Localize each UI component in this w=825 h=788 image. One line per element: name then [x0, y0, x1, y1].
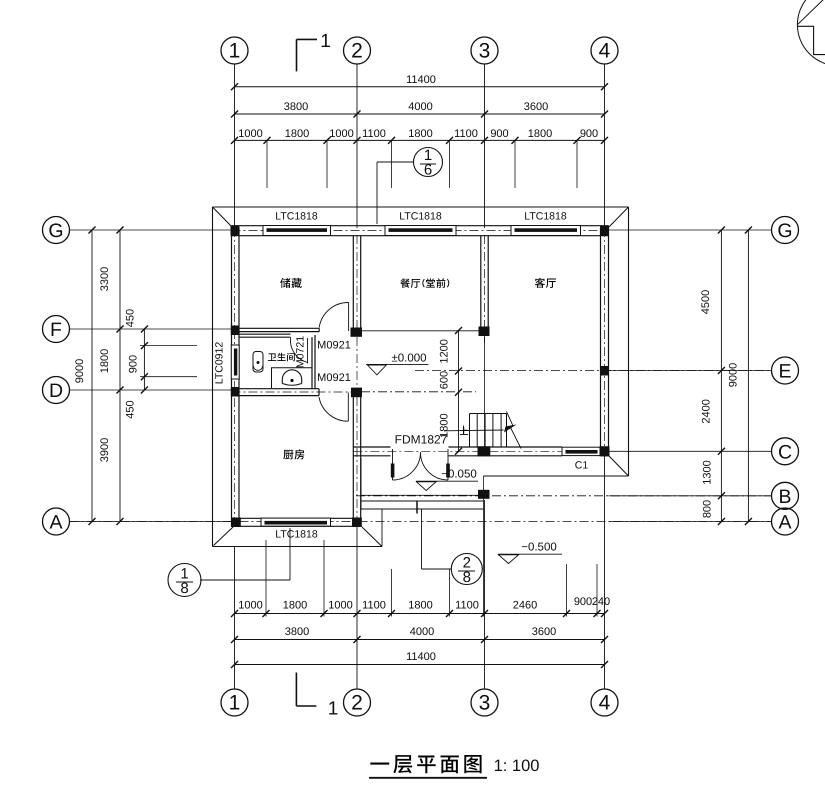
svg-text:1800: 1800 [528, 128, 552, 140]
grid line B dashdot [356, 495, 772, 497]
grid circle 1 top [221, 37, 248, 64]
beam line F dining-hall [361, 330, 481, 332]
grid line E right [609, 370, 772, 372]
svg-text:D: D [49, 380, 63, 402]
door M0721 bathroom [307, 338, 309, 364]
grid line 2 vertical bottom [356, 527, 358, 690]
door FDM1827 left leaf [391, 464, 395, 478]
window C1 [562, 447, 601, 455]
svg-text:1000: 1000 [329, 128, 353, 140]
grid circle C right [772, 438, 799, 465]
grid line A right [609, 521, 772, 523]
svg-text:450: 450 [125, 309, 137, 327]
wall bathroom east [311, 337, 313, 388]
dim line bays bottom [235, 639, 605, 641]
svg-text:3300: 3300 [99, 267, 111, 291]
grid circle A right [772, 508, 799, 535]
column col1-F [231, 326, 240, 336]
svg-text:3600: 3600 [524, 101, 548, 113]
svg-text:2460: 2460 [513, 600, 537, 612]
dim extension lines left [140, 345, 197, 347]
grid line C right [609, 450, 772, 452]
column col1-G [231, 226, 240, 236]
svg-text:A: A [778, 512, 791, 534]
wall C hall-living south [353, 446, 390, 448]
svg-text:4: 4 [599, 692, 611, 715]
elevation -0.500 [498, 553, 562, 555]
svg-text:M0921: M0921 [317, 340, 351, 352]
column col2-D [351, 388, 362, 398]
grid circle 3 bottom [471, 689, 498, 716]
elevation -0.050 [416, 480, 478, 482]
elevation +0.000 [366, 363, 429, 365]
svg-text:4500: 4500 [700, 290, 712, 314]
dim line left sub [143, 329, 145, 390]
grid line 3 dashdot in wall top [484, 235, 486, 343]
grid circle G right [772, 217, 799, 244]
grid line D dashdot right part [361, 391, 476, 393]
room label 储藏 [280, 278, 290, 288]
stair up arrow [444, 429, 504, 432]
svg-text:8: 8 [180, 580, 188, 597]
svg-text:4000: 4000 [408, 101, 432, 113]
svg-text:900: 900 [490, 128, 508, 140]
svg-text:900: 900 [128, 355, 140, 373]
svg-text:1100: 1100 [455, 600, 479, 612]
svg-text:1800: 1800 [408, 128, 432, 140]
wall col2 storage-dining [352, 236, 354, 329]
svg-text:±0.000: ±0.000 [391, 353, 426, 365]
wall F storage south [239, 327, 319, 329]
svg-text:LTC1818: LTC1818 [275, 529, 318, 541]
svg-text:9000: 9000 [728, 363, 740, 387]
grid circle 3 top [471, 37, 498, 64]
room label 厨房 [283, 450, 293, 460]
svg-text:E: E [778, 361, 791, 383]
svg-text:C: C [778, 441, 792, 463]
room label 卫生间 [268, 353, 276, 361]
section mark 1 top [296, 39, 298, 71]
column col1-D [231, 387, 240, 397]
svg-text:1000: 1000 [238, 128, 262, 140]
bathtub [253, 352, 263, 373]
grid circle 2 bottom [344, 689, 371, 716]
wall east col4 [600, 228, 602, 456]
svg-text:1100: 1100 [454, 128, 478, 140]
window LTC1818 W1 [263, 226, 331, 236]
eave corner SW [214, 527, 234, 546]
window LTC1818 W2 [385, 226, 456, 236]
wall D south of bathroom [232, 388, 320, 390]
svg-text:3: 3 [479, 692, 491, 715]
svg-text:C1: C1 [575, 460, 589, 472]
grid line A left [70, 521, 232, 523]
column col4-E [600, 366, 609, 376]
window LTC0912 [231, 345, 239, 379]
svg-text:−0.050: −0.050 [441, 469, 477, 481]
eave bottom kitchen [213, 546, 383, 548]
eave corner kitchen SE [362, 527, 382, 547]
svg-text:1800: 1800 [408, 600, 432, 612]
svg-text:1200: 1200 [439, 339, 451, 363]
svg-text:A: A [49, 512, 62, 534]
dim line 9000 right [747, 230, 749, 522]
room label 餐厅(堂前) [400, 278, 410, 287]
eave outline left [212, 207, 214, 547]
wall col2 kitchen east [352, 396, 354, 519]
grid line B right [609, 495, 772, 497]
column col2-A [352, 518, 362, 528]
grid line F left [70, 328, 232, 330]
dim line 9000 left [91, 230, 93, 522]
svg-text:3900: 3900 [99, 438, 111, 462]
svg-text:1000: 1000 [238, 600, 262, 612]
grid line 1 vertical bottom [234, 547, 236, 689]
column col4-G [600, 226, 609, 236]
callout 2/8 [451, 554, 482, 585]
column col3-F [479, 327, 490, 337]
svg-text:800: 800 [701, 500, 713, 518]
svg-text:1000: 1000 [328, 600, 352, 612]
svg-text:−0.500: −0.500 [521, 542, 557, 554]
grid circle B right [772, 482, 799, 509]
svg-text:9000: 9000 [74, 359, 86, 383]
door M0921 storage [348, 303, 350, 332]
grid line 3 vertical bottom [484, 500, 486, 689]
dim extension lines top [266, 140, 268, 188]
svg-text:G: G [777, 220, 792, 242]
grid line A dashdot [70, 521, 772, 523]
eave outline right [628, 207, 630, 476]
washbasin [282, 370, 301, 384]
svg-text:1: 100: 1: 100 [494, 757, 540, 775]
svg-text:2: 2 [351, 40, 363, 63]
svg-text:1: 1 [229, 40, 241, 63]
svg-text:4: 4 [599, 40, 611, 63]
svg-text:900: 900 [574, 596, 592, 608]
dim line interior [458, 331, 460, 452]
svg-text:3600: 3600 [532, 626, 556, 638]
dim line segments bottom [235, 613, 605, 615]
dim line 11400 bottom [235, 664, 605, 666]
svg-text:2: 2 [351, 692, 363, 715]
svg-text:1300: 1300 [701, 460, 713, 484]
wall G north [232, 225, 609, 227]
dim line segments top [235, 139, 605, 141]
wall col3 dining-living [480, 236, 482, 329]
grid line 2 dashdot in wall top [356, 235, 358, 397]
svg-text:6: 6 [424, 162, 432, 179]
svg-text:1100: 1100 [362, 128, 386, 140]
svg-text:1: 1 [328, 699, 339, 720]
stair treads [470, 413, 507, 415]
wall west col1 [231, 228, 233, 527]
column col1-A [231, 518, 241, 528]
washbasin counter [272, 368, 313, 388]
grid line 2 dashdot in wall bottom [356, 397, 358, 527]
svg-text:900: 900 [580, 128, 598, 140]
svg-text:240: 240 [592, 596, 610, 608]
door FDM1827 right leaf [446, 464, 450, 478]
callout 1/8 [168, 564, 201, 597]
grid line E dashdot [415, 370, 772, 372]
column col3-B [478, 490, 490, 499]
svg-text:450: 450 [125, 400, 137, 418]
grid line C dashdot in wall [353, 450, 608, 452]
eave outline top [213, 206, 629, 208]
grid circle D left [43, 377, 70, 404]
dim line left inner [119, 230, 121, 522]
porch step lines [361, 494, 484, 496]
grid line 1 dashdot in wall [234, 228, 236, 527]
svg-text:1: 1 [320, 31, 331, 52]
svg-text:11400: 11400 [406, 74, 436, 86]
grid line 3 vertical top [484, 64, 486, 228]
stair break line [507, 412, 522, 449]
svg-text:3800: 3800 [284, 101, 308, 113]
svg-text:1: 1 [229, 692, 241, 715]
svg-text:4000: 4000 [410, 626, 434, 638]
grid circle 2 top [344, 37, 371, 64]
window LTC1818 W3 [511, 226, 581, 236]
svg-text:11400: 11400 [406, 651, 436, 663]
svg-text:3800: 3800 [285, 626, 309, 638]
svg-text:LTC1818: LTC1818 [524, 211, 567, 223]
callout 1/6 [414, 148, 443, 177]
grid circle 4 bottom [591, 689, 618, 716]
door M0921 kitchen [347, 393, 349, 422]
svg-text:M0921: M0921 [317, 372, 351, 384]
eave corner NE [606, 207, 629, 230]
column col2-F [351, 328, 363, 337]
grid circle 1 bottom [221, 689, 248, 716]
svg-text:M0721: M0721 [295, 336, 307, 368]
svg-text:1800: 1800 [285, 128, 309, 140]
grid line 4 dashdot in wall [604, 228, 606, 456]
eave corner NW [213, 207, 235, 229]
svg-text:LTC0912: LTC0912 [214, 342, 226, 385]
svg-text:3: 3 [479, 40, 491, 63]
grid line D dashdot in wall [232, 391, 362, 393]
svg-text:1800: 1800 [283, 600, 307, 612]
north corner symbol [797, 0, 825, 66]
svg-text:B: B [778, 486, 791, 508]
dim extension lines bottom [265, 540, 267, 617]
dim line 11400 top [235, 86, 605, 88]
eave corner SE [609, 456, 629, 476]
grid line 2 vertical top [356, 64, 358, 228]
grid circle E right [772, 357, 799, 384]
svg-text:FDM1827: FDM1827 [395, 433, 448, 447]
svg-text:2400: 2400 [700, 399, 712, 423]
grid line 1 vertical top [234, 64, 236, 228]
column col4-C [600, 446, 610, 456]
svg-text:8: 8 [463, 569, 471, 586]
column col3-C [478, 446, 491, 456]
window LTC1818 W4 [261, 518, 331, 526]
title 一层平面图 [370, 762, 389, 764]
dim line right inner [720, 230, 722, 522]
terrace edge right [484, 475, 629, 477]
grid circle 4 top [591, 37, 618, 64]
svg-text:F: F [50, 319, 62, 341]
section mark 1 bottom [295, 673, 297, 707]
grid line G dashdot in wall [232, 230, 609, 232]
stair label 上 [460, 427, 468, 435]
grid line D left [70, 389, 232, 391]
svg-text:LTC1818: LTC1818 [275, 211, 318, 223]
grid line 4 vertical bottom [604, 456, 606, 689]
room label 客厅 [535, 278, 545, 288]
grid line 4 vertical top [604, 64, 606, 228]
grid circle G left [43, 217, 70, 244]
wall A kitchen south [232, 517, 362, 519]
grid line G left [70, 229, 232, 231]
grid circle A left [43, 508, 70, 535]
svg-text:LTC1818: LTC1818 [399, 211, 442, 223]
dim line bays top [235, 113, 605, 115]
wall bathroom north [239, 333, 291, 335]
svg-text:G: G [48, 220, 63, 242]
grid circle F left [43, 316, 70, 343]
svg-text:1100: 1100 [362, 600, 386, 612]
svg-text:1800: 1800 [99, 349, 111, 373]
svg-text:600: 600 [439, 371, 451, 389]
grid line G right [609, 229, 772, 231]
